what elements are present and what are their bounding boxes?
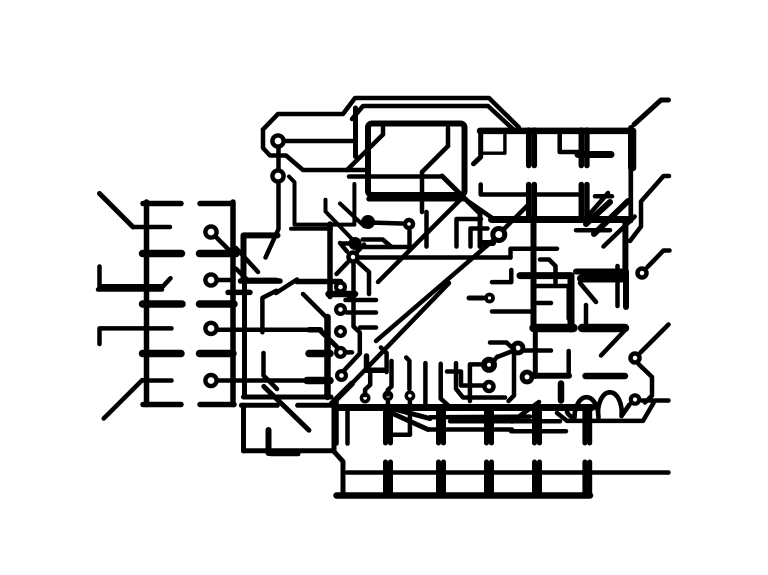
pad double stub down a2 [532,130,538,166]
wire long diag pair 2 lower [332,384,352,404]
via V17 [638,269,647,278]
wire step trace [540,260,556,284]
pad thick rung y353 left [143,350,182,358]
pad blob y278 [581,275,622,283]
wire pin y328 [147,326,172,331]
wire lls top left [241,403,277,408]
pad fat bar y328 right [582,324,625,332]
wire E-left left vert [533,332,538,377]
pad double stub up a1 [526,185,532,220]
wire y313 [492,309,533,314]
wire thin diag y246-216 [604,217,635,247]
wire long y258 [360,255,511,260]
wire comb c6 [470,364,483,401]
pad E-left bottom bar [536,373,570,379]
wire via11 left [490,343,512,348]
wire dot to via7 [368,223,402,224]
pad thick y380 inside [307,377,330,385]
wire diag stub x584 down [580,283,596,302]
wire LA y417 [430,414,530,419]
wire via c4 stub [346,350,352,355]
via V13 [485,382,494,391]
wire via7 stub down [407,231,412,245]
via C3 [336,327,345,336]
wire diag bar to LB [512,402,539,422]
wire diag corner to bar2 [464,199,492,218]
pad small rect [244,235,278,280]
pad thick rung y253 right [200,250,237,258]
pad vert x571 [568,276,575,329]
wire lls top right [298,403,332,408]
wire y194 left [481,185,527,195]
wire E-left top horiz [535,284,568,289]
via V10 [486,295,493,302]
wire lls divider [266,430,272,453]
wire U trace from via6 [289,177,354,225]
via V16 [406,392,413,399]
pad double stub down b2 [584,130,590,166]
via V7 [405,220,413,228]
wire vert x480 [478,214,483,247]
wire diag U2 [340,204,364,227]
wire bracket b [471,229,488,247]
pad thick rung y253 left [143,250,182,258]
via C5 [337,371,346,380]
wire lead top diag [634,100,669,125]
via V5 top [272,135,283,146]
pad row1 stub s5 [582,408,587,444]
wire via4 long [218,378,308,383]
wire bracket under bar left thin [483,131,505,153]
wire via14 up [365,370,370,396]
wire via16 through bar [408,402,413,435]
via V15 [384,392,391,399]
pad row1 stub s1 [383,408,388,444]
wire chevron bottom [363,245,411,250]
wire bracket left vert [474,131,481,164]
via C1 [336,283,345,292]
pad row2 stub t5 [582,462,587,496]
pad stub top left [143,201,181,207]
wire long diag pair 1 [376,241,493,342]
wire y196 stub right [595,194,612,199]
wire comb c5 [456,363,505,397]
via filled D2 [349,237,362,250]
wire diag through top gap [276,280,297,294]
pad bar3 y275 [520,272,570,279]
pad stem x531 [531,220,537,330]
pad stub bottom right [200,402,234,408]
wire vert x355 [353,108,358,157]
wire pin y380 [143,378,172,383]
pad double stub up b1 [579,185,585,220]
via V18 [631,354,640,363]
pad stub bottom left [143,402,181,408]
pad square right edge lower [324,317,331,397]
wire via11 right [524,348,551,353]
wire octagon outer [263,98,519,130]
pad vert x561 [558,384,565,401]
wire squiggle [567,392,630,417]
wire stub x448 [446,128,451,146]
pad thick rung y353 right [200,350,234,358]
pad right edge mid [622,220,628,272]
wire bracket a [457,219,482,247]
pad thick right ext y294 [329,291,356,298]
pad fat bar y328 left [534,324,574,332]
wire right edge middle [628,168,633,221]
wire via17 lead [648,251,670,268]
pad stub top right [200,201,232,207]
wire y304 [535,301,551,306]
pad rung y154 [578,151,611,158]
wire diag lower-left square [264,386,309,430]
wire diag via9 to stem [504,204,529,229]
pad lls bottom bump [271,451,298,456]
wire vert x386 hook [381,348,387,373]
via central V9 [493,229,505,241]
wire via column y313 [347,310,376,315]
wire via8 diag right [358,262,369,294]
pad square top bar right [297,279,341,285]
pad square right edge upper [327,224,333,297]
pad thick left ext y292 [228,290,250,296]
wire via15 up [388,361,392,395]
pad rung y271 [576,269,624,275]
wire diag big rect to outline [378,198,462,282]
wire via1 diag [216,237,231,252]
wire via column y327 [360,325,376,330]
wire horiz y176 [349,174,442,179]
wire vert x586 [584,305,589,324]
wire square bottom edge [244,395,332,400]
pad stub to via10 [469,296,483,301]
via C4 [336,348,345,357]
wire diag small rect b [236,269,249,281]
pad thick y329 inside [309,327,321,333]
wire square inner bottom [264,353,278,389]
wire via16 up [406,358,409,390]
wire lls left [241,405,246,451]
wire square diag top-right [303,294,327,318]
pad bus bar2 y219 [492,216,631,223]
wire via6 down diag [266,184,279,258]
pad double stub down a1 [526,130,532,166]
pad big rect bottom band [369,196,463,202]
wire LB y421 [450,419,560,424]
wire via8 diag upleft [340,243,347,252]
pad row2 stub t2 [436,462,441,496]
wire diag below bar [601,331,625,356]
wire via15 through bar [386,402,391,435]
wire thin y230 [576,228,610,233]
wire lead diagonal top-left [100,194,134,228]
wire via5 stub right [285,139,352,144]
pad row1 stub s2 [436,408,441,444]
wire under bar [388,432,410,437]
wire lead y328 with hook [100,328,144,344]
pad row2 stub t4 [532,462,537,496]
via V19 [631,395,639,403]
wire bracket under bar right [560,131,580,152]
wire E-left right vert [566,351,571,376]
wire vert x426 [424,212,429,247]
pad bar1 y407 [340,404,592,411]
wire via3 long [218,328,310,333]
wire thin stub xA [334,401,339,444]
wire bent right block [511,249,558,258]
wire y194 right [538,192,580,197]
pad row1 stub s3 [484,408,489,444]
wire dot2 stub [341,241,349,246]
via V8 [349,253,358,262]
wire rail2 [230,202,236,405]
wire via8 diag upright [357,245,364,253]
wire y282 stub [492,270,511,282]
pad lls bottom [244,448,333,453]
via V11 [513,343,523,353]
wire L2 y472 [347,470,669,475]
wire LBb y429 [428,427,512,432]
wire via19 stub [642,398,669,403]
wire LC y431 [511,429,566,434]
wire thin vert x617 [615,266,620,306]
wire rail1 [144,202,150,405]
via V3 [205,323,216,334]
pad right edge lower [623,272,629,308]
wire bent lead hook [100,267,171,287]
wire lead diagonal bottom-left [104,380,143,419]
wire via2 stub [218,278,234,283]
pad row2 stub t1 [383,462,388,496]
wire diag in block [587,193,608,217]
pad L trace [367,356,384,370]
wire octagon inner [352,106,514,130]
wire under U second [291,227,331,231]
pad flag at via9 [483,240,494,246]
via V4 [205,375,216,386]
pad row1 stub s4 [532,408,537,444]
wire diag via11 [499,352,512,357]
wire via8 zigzag down to column [344,263,360,371]
via V14 [362,394,369,401]
wire between vias [276,148,281,169]
pad row2 stub t3 [484,462,489,496]
wire lead y289 [98,287,162,292]
pad double stub up b2 [584,185,590,220]
wire via8 diag downleft [337,263,348,275]
via C2 [336,305,345,314]
pad bar2 y495 [337,492,591,499]
wire lls right edge [334,405,343,495]
wire via c1 diag [346,293,352,300]
wire vert x422 [420,172,425,212]
wire via13 left [447,372,483,386]
pad big rect outline [368,124,465,196]
via V6 [272,170,283,181]
via V2 [205,274,216,285]
wire comb c3 [423,363,428,404]
wire comb c4 [441,364,449,406]
wire thin stub xB [345,411,350,444]
via V1 [205,226,216,237]
wire diag to LA [394,409,430,419]
via V12 [522,372,532,382]
wire diag small rect a [236,248,258,272]
pad bus bar1 y131 [480,128,633,135]
pad corner diag c2 [594,201,628,234]
pad double stub down b1 [579,130,585,166]
via ring D3 [484,360,494,370]
pad E-right bottom bar [586,373,626,380]
wire chevron top [363,240,392,248]
pad thick y353 inside [309,350,330,358]
pad right edge upper [628,128,634,168]
wire LD y421 [557,403,654,421]
wire diag to x421 [422,146,448,172]
pad right vert x633 [630,131,637,168]
wire pin2 [133,225,170,230]
pad thick rung y304 right [200,300,235,308]
wire stub diag inside U [326,200,353,239]
wire via18 down [639,364,653,403]
wire long diag pair 2 [349,283,449,387]
pad thick rung y304 left [143,300,183,308]
wire diag to LB [392,413,429,430]
wire zigzag lead [630,176,669,241]
wire via18 lead [641,325,669,353]
wire diag outline to stub [347,128,383,171]
wire square left edge [242,283,247,397]
wire octagon outer left lower [263,130,368,171]
wire square inner top [262,291,276,333]
wire diag to via c4 [321,331,337,347]
pad double stub up a2 [532,185,538,220]
pad square top bar left [241,278,281,284]
pad corner diag c1 [586,202,610,224]
wire diag y176 down to via9 [442,176,480,214]
wire D3 tick [494,357,498,361]
wire via column y300 [346,298,377,303]
via filled D1 [361,215,375,229]
wire vert x514 [509,349,515,401]
wire E-left upper right vert [566,286,571,319]
